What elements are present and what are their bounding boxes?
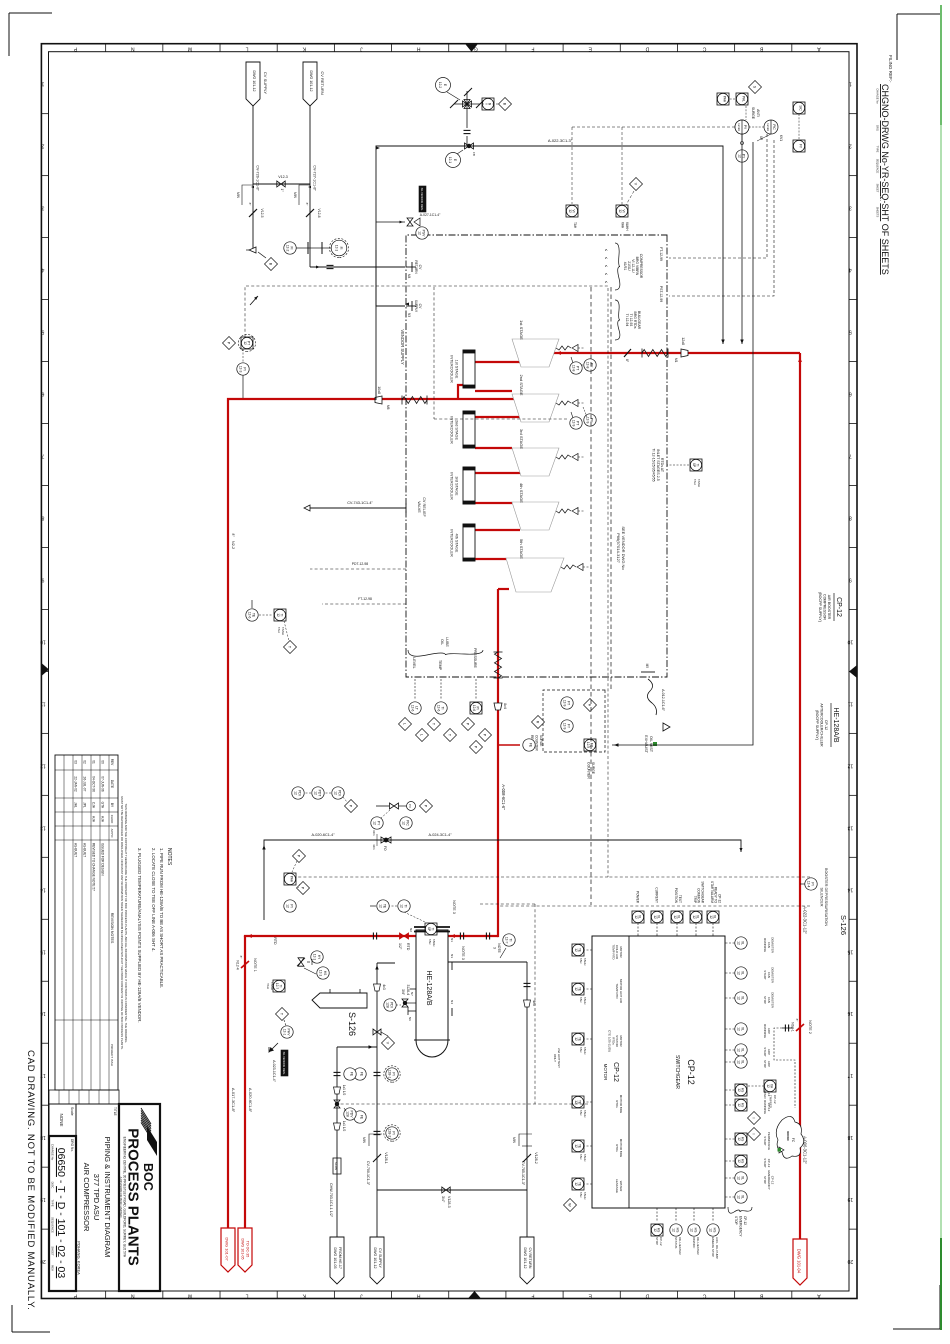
svg-text:3rd STAGE: 3rd STAGE	[519, 429, 524, 449]
equipment title CP-12	[818, 592, 842, 622]
svg-text:SP: SP	[427, 927, 431, 931]
anti-surge dashed to FT	[659, 134, 767, 261]
svg-text:N: N	[131, 46, 135, 52]
psv on vendor box	[407, 186, 441, 239]
svg-text:CV-727-1C1-8": CV-727-1C1-8"	[313, 165, 317, 191]
label A-006-3C1-12 on line H	[803, 1136, 808, 1164]
svg-text:COMPRESSOR: COMPRESSOR	[823, 594, 827, 620]
svg-text:CV RELIEF: CV RELIEF	[422, 497, 426, 517]
svg-text:3rd STAGE: 3rd STAGE	[455, 476, 459, 496]
svg-text:STOP: STOP	[763, 1176, 767, 1184]
svg-text:12: 12	[379, 904, 383, 908]
red intercooler1 to stage2	[475, 390, 512, 392]
svg-text:1x1 1/2: 1x1 1/2	[342, 1085, 346, 1096]
pv control valve	[371, 800, 433, 830]
svg-text:ONLY: ONLY	[553, 1054, 557, 1062]
svg-text:PDT-12-98: PDT-12-98	[352, 562, 369, 566]
svg-text:SIL VENDOR DWG: SIL VENDOR DWG	[420, 188, 424, 211]
lube oil temp gauges	[428, 702, 457, 742]
svg-text:12-6: 12-6	[411, 705, 415, 712]
svg-text:128-2: 128-2	[388, 1129, 392, 1138]
svg-text:FT-12-99: FT-12-99	[659, 247, 663, 261]
panel indication row	[725, 937, 775, 1203]
svg-text:TAH: TAH	[579, 1110, 583, 1115]
red discharge to OC-35 node B	[244, 936, 246, 1228]
svg-text:7: 7	[41, 453, 44, 459]
label A-020-6C1-8 red line	[248, 1088, 253, 1113]
svg-text:12-8: 12-8	[572, 365, 576, 372]
svg-text:12-1: 12-1	[313, 954, 317, 961]
svg-text:01: 01	[92, 760, 96, 764]
compressor stage 3	[512, 429, 585, 476]
svg-text:A-022-3C1-3": A-022-3C1-3"	[548, 138, 573, 143]
centerline marker right	[468, 1291, 481, 1299]
svg-text:FI: FI	[339, 247, 343, 250]
svg-text:F: F	[531, 1293, 534, 1299]
svg-text:SWITCHGEAR: SWITCHGEAR	[674, 1055, 680, 1089]
svg-text:START/ALARM: START/ALARM	[710, 881, 714, 903]
svg-text:RETURN: RETURN	[414, 260, 418, 274]
svg-text:12-4: 12-4	[807, 881, 811, 888]
svg-text:12-99: 12-99	[766, 123, 770, 131]
svg-text:CV SUPPLY: CV SUPPLY	[263, 72, 268, 94]
svg-text:12-9: 12-9	[586, 742, 590, 749]
bypass valve V12-3	[253, 175, 310, 192]
cv supply fittings	[373, 984, 395, 1050]
svg-text:128: 128	[386, 1002, 390, 1008]
svg-text:13: 13	[847, 824, 853, 830]
svg-text:RTDs: RTDs	[615, 1100, 619, 1108]
svg-text:7: 7	[849, 453, 852, 459]
svg-text:Scale: Scale	[70, 1107, 74, 1116]
svg-text:PV: PV	[408, 804, 412, 808]
cp12 tripped square	[747, 1080, 777, 1109]
label A-017-3C1-8 red line	[231, 1088, 236, 1113]
anti-surge sp line to surge counter	[612, 142, 753, 747]
svg-text:12: 12	[574, 948, 578, 952]
svg-text:2. LOCATE CLOSE TO TEE OFF LIN: 2. LOCATE CLOSE TO TEE OFF LINE A-006 SH…	[151, 848, 156, 952]
svg-text:A-027-1C1-4": A-027-1C1-4"	[420, 213, 441, 217]
svg-text:2: 2	[849, 143, 852, 149]
title box	[76, 1104, 119, 1291]
compressor brg vibration bracket	[604, 243, 643, 290]
panel right column	[651, 1208, 719, 1259]
svg-text:377 TPD ASU: 377 TPD ASU	[92, 1174, 101, 1221]
booster PT	[800, 878, 817, 890]
svg-text:MIN: MIN	[293, 192, 297, 199]
svg-text:3/4": 3/4"	[401, 989, 405, 996]
confidentiality fine print	[120, 796, 128, 1049]
svg-text:RTD: RTD	[406, 943, 410, 951]
svg-text:V128-2: V128-2	[534, 1152, 538, 1164]
svg-text:SIL VENDOR DWG: SIL VENDOR DWG	[282, 1052, 286, 1075]
svg-text:TI 12-94: TI 12-94	[625, 314, 629, 327]
panel water leakage diamond	[564, 1199, 577, 1212]
compressor stage 5	[506, 539, 590, 592]
label RTD on line B	[273, 937, 277, 945]
svg-text:2nd STAGE: 2nd STAGE	[519, 374, 524, 395]
A-023 vent arrow	[269, 1043, 288, 1083]
svg-text:C: C	[702, 1293, 706, 1299]
svg-text:BOC: BOC	[141, 1163, 155, 1191]
svg-text:12: 12	[574, 1144, 578, 1148]
label A-022-3C1-12 on line H	[803, 906, 808, 934]
svg-text:12: 12	[294, 791, 298, 795]
svg-text:AS-BUILT: AS-BUILT	[83, 843, 87, 857]
atm vent arrow	[250, 295, 259, 305]
svg-text:REVISION NOTES: REVISION NOTES	[110, 913, 114, 944]
cv supply header line	[253, 106, 260, 250]
red stage3 to intercooler3	[475, 472, 520, 474]
svg-text:8″: 8″	[305, 203, 309, 206]
flange pair on line C at vessel	[460, 933, 463, 940]
svg-text:3128-4: 3128-4	[406, 984, 410, 995]
svg-text:AJH: AJH	[101, 816, 105, 823]
svg-text:DATE: DATE	[110, 780, 114, 788]
svg-text:6: 6	[849, 391, 852, 397]
valve FO on A-020	[372, 830, 391, 851]
CV return tick M4	[406, 260, 422, 278]
cv supply pentagon CV SUPPLY DWG 101-12	[370, 1237, 384, 1284]
cv supply pentagon top-left	[246, 62, 268, 106]
check valve on line G	[624, 349, 631, 363]
svg-text:DISC: DISC	[51, 1182, 55, 1189]
min bracket return	[293, 185, 311, 205]
atmospheric line A-020 A-024	[262, 833, 742, 920]
svg-text:SEQUENCE: SEQUENCE	[51, 1217, 55, 1233]
svg-text:CV-785-1C1-3": CV-785-1C1-3"	[521, 1161, 525, 1186]
svg-text:1st STAGE: 1st STAGE	[519, 320, 524, 340]
cv supply orifice run 1	[354, 1058, 400, 1082]
bellows on suction line G	[642, 349, 668, 358]
svg-text:CP-12: CP-12	[773, 1095, 777, 1104]
svg-text:3: 3	[493, 947, 497, 949]
svg-text:FC: FC	[791, 1138, 795, 1143]
red aftercooler outlet node C	[244, 934, 416, 938]
svg-text:TRIP: TRIP	[693, 896, 697, 903]
svg-text:12-1: 12-1	[283, 1029, 287, 1036]
svg-text:H: H	[588, 704, 592, 707]
svg-text:REV: REV	[110, 759, 114, 766]
svg-text:12: 12	[738, 154, 742, 158]
svg-text:04-OCT-96: 04-OCT-96	[92, 776, 96, 792]
svg-text:SCRN: SCRN	[334, 1162, 338, 1170]
revision table	[55, 755, 118, 1090]
svg-text:SUPPLY: SUPPLY	[414, 300, 418, 313]
cp12 diamonds	[748, 1112, 761, 1141]
svg-text:PAH: PAH	[290, 876, 294, 883]
svg-text:41/51: 41/51	[623, 262, 627, 271]
stage2 PT PV circles	[570, 407, 596, 429]
chw pentagon FROM HE-17 DWG 101-03	[330, 1237, 344, 1284]
dashed pdt-12-98 line	[310, 562, 406, 569]
svg-text:3: 3	[41, 205, 44, 211]
svg-text:SURGE: SURGE	[539, 735, 543, 746]
svg-text:DRG: DRG	[876, 125, 880, 131]
svg-text:2: 2	[41, 143, 44, 149]
svg-text:TI 12-15/25/35/45/55: TI 12-15/25/35/45/55	[652, 448, 656, 481]
te ti on cv return line	[370, 900, 437, 947]
svg-text:CV RETURN: CV RETURN	[528, 1248, 532, 1269]
svg-text:4x3: 4x3	[532, 1000, 536, 1006]
svg-text:TAH: TAH	[277, 627, 281, 633]
svg-text:12: 12	[653, 915, 657, 919]
svg-text:12: 12	[737, 1195, 741, 1199]
zone letter bands left and right	[73, 44, 820, 1299]
svg-text:A-024-3C1-4": A-024-3C1-4"	[428, 833, 452, 837]
switchgear panel CP-12	[592, 936, 725, 1208]
svg-text:07-JUN-96: 07-JUN-96	[101, 776, 105, 792]
intercooler 3	[450, 467, 476, 504]
svg-text:15: 15	[847, 948, 853, 954]
svg-text:INTERCOOLER: INTERCOOLER	[450, 529, 454, 557]
svg-text:RTDs: RTDs	[615, 1144, 619, 1152]
svg-text:NONE: NONE	[59, 1113, 64, 1126]
svg-text:CV-726-1C1-8": CV-726-1C1-8"	[256, 165, 260, 191]
svg-text:NOTE 2: NOTE 2	[808, 1020, 812, 1034]
svg-text:CP-12: CP-12	[612, 1062, 619, 1082]
svg-text:INTERCOOLER: INTERCOOLER	[450, 355, 454, 383]
svg-text:12-8: 12-8	[586, 362, 590, 369]
vent blowdown valve FB	[446, 143, 724, 168]
svg-text:W: W	[568, 1203, 572, 1207]
title block BOC logo box	[119, 1104, 160, 1291]
svg-text:STOP: STOP	[734, 1216, 738, 1225]
svg-text:12: 12	[737, 1103, 741, 1107]
svg-text:12: 12	[737, 1137, 741, 1141]
svg-text:CHGNO-DRWG No-YR-SEQ-SHT OF SH: CHGNO-DRWG No-YR-SEQ-SHT OF SHEETS	[880, 84, 890, 275]
svg-text:NOTES: NOTES	[166, 848, 172, 866]
svg-text:12: 12	[334, 791, 338, 795]
svg-text:4: 4	[849, 267, 852, 273]
svg-text:SP: SP	[692, 463, 696, 467]
vent cross valve cluster	[436, 78, 512, 147]
long dashed line px611	[610, 287, 612, 690]
svg-text:12: 12	[243, 341, 247, 345]
svg-text:20: 20	[40, 1258, 46, 1264]
svg-text:RUNNING: RUNNING	[763, 1100, 767, 1115]
svg-text:SHEETS: SHEETS	[876, 207, 880, 218]
svg-text:I: I	[752, 1118, 756, 1119]
svg-text:CP-12: CP-12	[835, 597, 842, 617]
stage1 PT PV circles	[570, 357, 596, 374]
notes block	[137, 848, 172, 1023]
svg-text:DRG No.: DRG No.	[70, 1139, 74, 1152]
svg-text:CV-700-1C1-3": CV-700-1C1-3"	[366, 1161, 370, 1186]
vessel PDI instrument	[384, 999, 401, 1011]
svg-text:DWG 101-04: DWG 101-04	[797, 1249, 802, 1274]
svg-text:CAD DRAWING. NOT TO BE MODIFI: CAD DRAWING. NOT TO BE MODIFIED MANUALLY…	[25, 1050, 36, 1311]
svg-text:MOTOR: MOTOR	[603, 1064, 608, 1081]
svg-text:RTD: RTD	[273, 937, 277, 945]
svg-text:AFTERCOOLER/CHILLER: AFTERCOOLER/CHILLER	[820, 703, 824, 747]
svg-text:20: 20	[847, 1258, 853, 1264]
chw fittings	[329, 1068, 356, 1218]
svg-text:12: 12	[653, 1228, 657, 1232]
svg-text:STATUS: STATUS	[674, 1237, 678, 1248]
svg-text:10: 10	[847, 638, 853, 644]
svg-text:L: L	[403, 723, 407, 725]
chw to cv supply branch	[322, 1046, 337, 1048]
label N12-4 NOTE 1	[236, 956, 258, 972]
svg-text:REV: REV	[51, 1265, 55, 1271]
svg-text:5: 5	[41, 329, 44, 335]
svg-text:CP-12: CP-12	[743, 1216, 747, 1225]
compressor stage 2	[512, 374, 585, 422]
svg-text:TAH: TAH	[266, 983, 270, 989]
svg-text:02: 02	[83, 760, 87, 764]
svg-text:N: N	[131, 1293, 135, 1299]
cv supply drain funnel	[246, 247, 278, 271]
scale box	[49, 1104, 76, 1136]
valve V128-2	[512, 1134, 538, 1186]
svg-text:MIN: MIN	[362, 1137, 366, 1144]
svg-text:128-1: 128-1	[388, 1070, 392, 1079]
anti-surge valve outlet to suction	[740, 134, 743, 344]
svg-text:12-6: 12-6	[437, 705, 441, 712]
svg-text:V128-1: V128-1	[384, 1152, 388, 1164]
svg-text:14: 14	[40, 886, 46, 892]
svg-text:M5: M5	[645, 664, 649, 669]
svg-text:12: 12	[692, 915, 696, 919]
corner crop mark top-right	[893, 1285, 940, 1329]
vendor box M5 tick	[641, 664, 655, 672]
svg-text:VAHH: VAHH	[625, 222, 629, 231]
svg-text:ON/OFF: ON/OFF	[692, 1237, 696, 1248]
svg-text:14: 14	[847, 886, 853, 892]
svg-text:18: 18	[40, 1134, 46, 1140]
svg-text:S-126: S-126	[839, 915, 848, 935]
svg-text:PROJECT ISSH: PROJECT ISSH	[110, 1044, 114, 1066]
svg-text:12-3: 12-3	[239, 366, 243, 373]
panel status column	[632, 881, 722, 936]
min bracket supply	[236, 185, 254, 205]
red 1st stage suction riser node G	[554, 351, 802, 362]
three way valve HY-12-1	[297, 951, 329, 979]
svg-text:1st STAGE: 1st STAGE	[455, 360, 459, 379]
svg-text:12: 12	[709, 1228, 713, 1232]
svg-text:MUST NOT BE REPRODUCED OR DISC: MUST NOT BE REPRODUCED OR DISCLOSED, NOR…	[120, 796, 124, 1049]
svg-text:START: START	[763, 1047, 767, 1057]
cw return pentagon CV RETURN DWG 101-12	[520, 1237, 534, 1284]
svg-text:18: 18	[847, 1134, 853, 1140]
svg-text:26-JUL-97: 26-JUL-97	[83, 777, 87, 792]
svg-text:TAH: TAH	[579, 1192, 583, 1197]
svg-text:12: 12	[574, 1037, 578, 1041]
red note jog on line H	[796, 1024, 804, 1031]
compressor stage 1	[512, 320, 585, 367]
svg-text:GTH: GTH	[101, 802, 105, 809]
svg-text:V12-5: V12-5	[260, 208, 264, 217]
svg-text:12: 12	[737, 1088, 741, 1092]
svg-text:M4: M4	[407, 274, 411, 279]
svg-text:12-1: 12-1	[448, 157, 452, 164]
vendor note see vendor dwg	[616, 526, 626, 570]
svg-text:12: 12	[574, 987, 578, 991]
svg-text:3C1: 3C1	[372, 844, 376, 850]
svg-text:M: M	[188, 46, 192, 52]
valve V12-5	[248, 203, 264, 218]
svg-text:POSITION: POSITION	[674, 888, 678, 904]
svg-text:12: 12	[737, 1060, 741, 1064]
svg-text:PIC: PIC	[772, 124, 776, 130]
svg-text:L: L	[420, 734, 424, 736]
svg-text:P66(97014-3127: P66(97014-3127	[616, 533, 621, 564]
svg-text:TAH: TAH	[579, 997, 583, 1002]
red stage4 to intercooler4	[475, 529, 520, 531]
centerline marker bottom	[41, 663, 49, 676]
drawing number box	[49, 1136, 76, 1291]
svg-text:NS2-1: NS2-1	[791, 1022, 795, 1032]
svg-text:CHW-703-1C1-1 1/2": CHW-703-1C1-1 1/2"	[329, 1183, 333, 1218]
svg-text:FROM HE-17: FROM HE-17	[338, 1247, 342, 1269]
svg-text:MIN: MIN	[512, 1137, 516, 1144]
svg-text:SILENCER: SILENCER	[820, 888, 824, 907]
cad drawing note	[25, 1050, 36, 1311]
svg-text:N4: N4	[450, 1000, 454, 1004]
bullgear brg bracket	[615, 300, 641, 340]
red intercooler2 to stage3	[475, 447, 512, 449]
svg-text:F: F	[531, 46, 534, 52]
svg-text:12: 12	[373, 821, 377, 825]
svg-text:12-99: 12-99	[737, 123, 741, 131]
svg-text:11: 11	[40, 700, 45, 706]
svg-text:12-6: 12-6	[472, 705, 476, 712]
svg-text:AS-BUILT: AS-BUILT	[74, 843, 78, 857]
svg-text:00: 00	[101, 760, 105, 764]
svg-text:OIL: OIL	[440, 639, 444, 645]
svg-text:8: 8	[41, 514, 44, 520]
svg-text:M1: M1	[674, 358, 678, 363]
svg-text:13: 13	[40, 824, 46, 830]
svg-text:A-008-6C1-6": A-008-6C1-6"	[501, 784, 506, 810]
vendor package dash-dot boundary	[406, 235, 667, 677]
lube oil console bracket	[408, 637, 483, 700]
svg-text:TAH: TAH	[579, 958, 583, 963]
svg-text:A-017-3C1-8": A-017-3C1-8"	[231, 1088, 236, 1113]
svg-text:V12-3: V12-3	[278, 175, 288, 179]
red RTD valve on line C	[398, 933, 410, 951]
red intercooler1 outlet	[458, 385, 463, 399]
svg-text:LEAKAGE: LEAKAGE	[615, 1179, 619, 1193]
compressor stage 4	[512, 483, 585, 530]
svg-text:9: 9	[849, 576, 852, 582]
dashed pt to switchgear	[245, 286, 608, 877]
svg-text:M6: M6	[386, 405, 390, 410]
long dashed pah line	[295, 876, 810, 878]
svg-text:12-2: 12-2	[438, 82, 442, 89]
svg-text:1/2": 1/2"	[398, 943, 402, 950]
svg-text:12: 12	[574, 1100, 578, 1104]
vahh dashed crossline	[572, 127, 735, 205]
red booster discharge node D	[448, 589, 498, 938]
svg-text:D: D	[645, 46, 649, 52]
svg-text:FE: FE	[350, 1072, 354, 1077]
svg-text:12-9: 12-9	[563, 700, 567, 707]
svg-text:12: 12	[737, 1048, 741, 1052]
svg-text:N6: N6	[408, 1017, 412, 1021]
approval strip	[49, 1090, 119, 1104]
chw line	[337, 1045, 377, 1237]
svg-text:ISSUED FOR DESIGN: ISSUED FOR DESIGN	[101, 843, 105, 876]
svg-text:START: START	[763, 970, 767, 980]
corner crop mark bottom-left	[9, 13, 52, 56]
svg-text:POWER: POWER	[636, 891, 640, 904]
svg-text:12-?: 12-?	[505, 937, 509, 944]
svg-text:2nd STAGE: 2nd STAGE	[455, 420, 459, 440]
svg-text:10: 10	[40, 638, 46, 644]
svg-text:H: H	[416, 46, 420, 52]
